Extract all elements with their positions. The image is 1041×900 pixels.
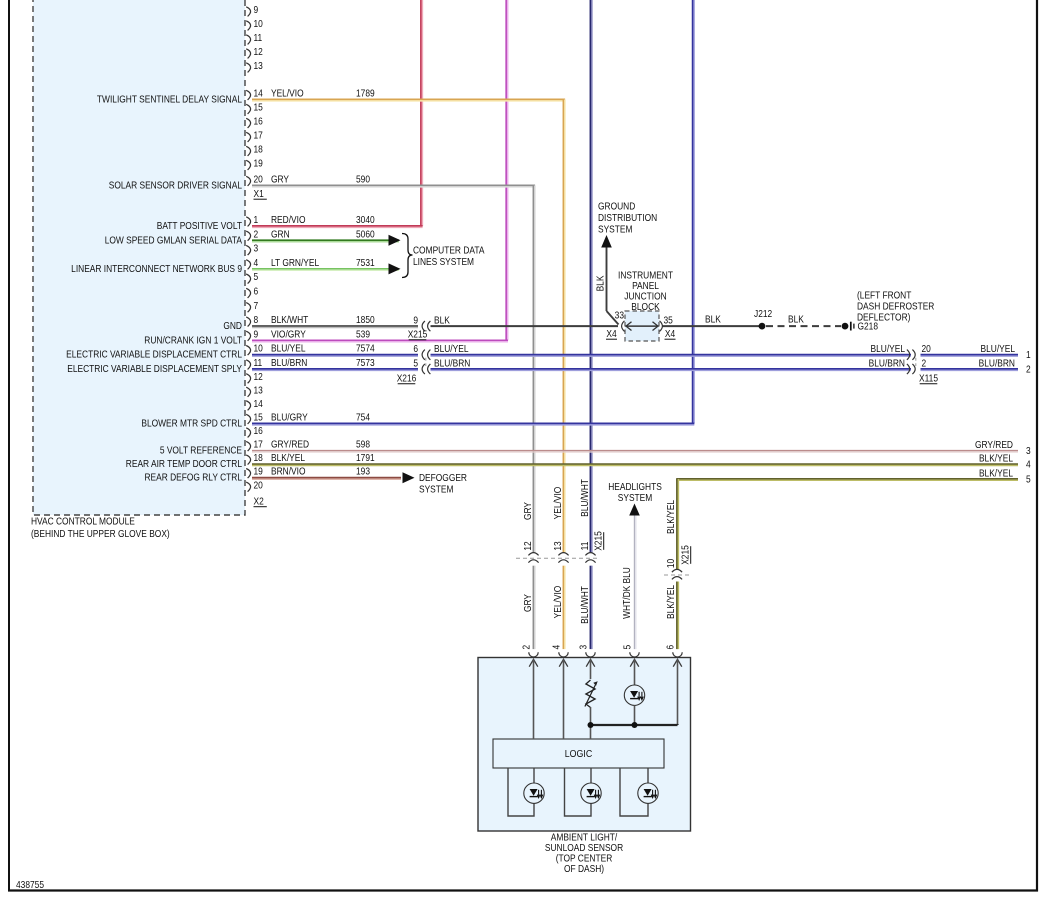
pin 9 of connector X1 (246, 7, 250, 17)
page border bottom (8, 889, 1038, 891)
wire pin9 VIO/GRY 539 (252, 339, 508, 341)
wire pin8 BLK/WHT 1850 (252, 325, 418, 327)
svg-text:DEFOGGER: DEFOGGER (419, 473, 467, 484)
svg-text:1: 1 (1026, 350, 1031, 361)
wire pin10 BLU/YEL 7574 module side (252, 354, 418, 356)
instrument panel junction block box (625, 311, 659, 341)
svg-text:SUNLOAD SENSOR: SUNLOAD SENSOR (545, 842, 624, 853)
svg-text:BLU/GRY: BLU/GRY (271, 412, 308, 423)
svg-text:VIO/GRY: VIO/GRY (271, 329, 306, 340)
svg-text:BLU/BRN: BLU/BRN (979, 358, 1015, 369)
svg-text:GRN: GRN (271, 229, 290, 240)
sensor internal bus wire (591, 724, 678, 726)
svg-text:3: 3 (1026, 445, 1031, 456)
pin 7 of connector X2 (246, 303, 250, 313)
wire pin19 BRN/VIO 193 (252, 477, 401, 479)
pin 8 of connector X2 (246, 317, 250, 327)
svg-text:JUNCTION: JUNCTION (624, 291, 666, 302)
wire BLU/YEL right segment to terminal 1 (921, 354, 1019, 356)
wire BLK from X215 to junction block (431, 325, 619, 327)
wire pin2 GRN 5060 (252, 239, 399, 241)
svg-text:2: 2 (521, 645, 532, 650)
splice J212 (759, 323, 766, 330)
junction node on pin5 wire (632, 722, 638, 728)
svg-text:10: 10 (254, 18, 263, 29)
HVAC control module box (dashed, light blue) (33, 0, 245, 515)
svg-text:BLK: BLK (595, 275, 606, 292)
svg-text:GRY: GRY (271, 174, 289, 185)
svg-text:RUN/CRANK IGN 1 VOLT: RUN/CRANK IGN 1 VOLT (144, 335, 242, 346)
inline connector pin 13 on YEL/VIO (558, 553, 568, 556)
inline connector X215 pin 9 (BLK/WHT to BLK) (422, 321, 425, 331)
wire YEL/VIO vertical upper segment (563, 100, 565, 553)
svg-text:X215: X215 (593, 531, 604, 551)
svg-text:BLU/WHT: BLU/WHT (579, 586, 590, 624)
svg-text:13: 13 (254, 60, 263, 71)
svg-text:18: 18 (254, 144, 263, 155)
svg-text:BLK: BLK (705, 314, 722, 325)
inline connector X216 pin 5 BLU/BRN (422, 364, 425, 374)
svg-text:19: 19 (254, 158, 263, 169)
pin 18 of connector X1 (246, 146, 250, 156)
pin 15 of connector X2 (246, 414, 250, 424)
sensor LED loop 3 (620, 768, 648, 816)
svg-text:YEL/VIO: YEL/VIO (552, 586, 563, 619)
wire BLK/YEL vertical upper segment (676, 479, 678, 569)
svg-text:DEFLECTOR): DEFLECTOR) (857, 312, 910, 323)
wire pin20 GRY 590 (252, 185, 535, 187)
svg-text:BLU/WHT: BLU/WHT (579, 479, 590, 517)
wire BLU/BRN middle segment (431, 368, 912, 370)
wire pin18 BLK/YEL 1791 (252, 463, 1018, 465)
wire BLU/WHT vertical from top to sensor (590, 0, 592, 553)
svg-text:HVAC CONTROL MODULE: HVAC CONTROL MODULE (31, 516, 135, 527)
sensor internal wire pin3 upper (590, 659, 592, 679)
svg-text:1850: 1850 (356, 314, 375, 325)
svg-text:(LEFT FRONT: (LEFT FRONT (857, 290, 912, 301)
pin 12 of connector X2 (246, 374, 250, 384)
inline connector pin 12 on GRY (528, 553, 538, 556)
pin 10 of connector X2 (246, 346, 250, 356)
ambient light/sunload sensor box (478, 658, 691, 832)
svg-text:X215: X215 (680, 545, 691, 565)
svg-text:BLU/YEL: BLU/YEL (434, 344, 468, 355)
junction block pin 35 (660, 321, 663, 332)
wire pin17 GRY/RED 598 (252, 450, 1018, 452)
svg-text:GROUND: GROUND (598, 201, 636, 212)
svg-text:6: 6 (665, 645, 676, 650)
wire GRY vertical lower segment (533, 566, 535, 649)
svg-text:OF DASH): OF DASH) (564, 863, 604, 874)
svg-text:BLK/YEL: BLK/YEL (271, 452, 305, 463)
svg-text:6: 6 (413, 344, 418, 355)
pin 3 of connector X2 (246, 245, 250, 255)
svg-text:3: 3 (254, 243, 259, 254)
svg-text:SYSTEM: SYSTEM (598, 224, 632, 235)
svg-text:GRY/RED: GRY/RED (271, 439, 309, 450)
pin 17 of connector X1 (246, 132, 250, 142)
wire BLU/YEL middle segment (431, 354, 912, 356)
pin 11 of connector X2 (246, 360, 250, 370)
svg-text:5: 5 (622, 645, 633, 650)
svg-text:9: 9 (254, 4, 259, 15)
junction node on pin3 wire (588, 722, 594, 728)
photodiode D2 (524, 783, 544, 803)
svg-text:12: 12 (254, 46, 263, 57)
svg-text:4: 4 (1026, 459, 1031, 470)
svg-text:5060: 5060 (356, 229, 375, 240)
svg-text:AMBIENT LIGHT/: AMBIENT LIGHT/ (551, 832, 618, 843)
svg-text:BLU/BRN: BLU/BRN (869, 358, 905, 369)
svg-text:INSTRUMENT: INSTRUMENT (618, 270, 673, 281)
inline connector X115 pin 20 BLU/YEL (912, 350, 915, 360)
pin 10 of connector X1 (246, 21, 250, 31)
svg-text:11: 11 (254, 357, 263, 368)
svg-text:GRY/RED: GRY/RED (975, 439, 1013, 450)
svg-text:9: 9 (413, 315, 418, 326)
sensor internal wire pin6 (677, 659, 679, 725)
pin 2 of connector X2 (246, 231, 250, 241)
pin 4 of connector X2 (246, 260, 250, 270)
sensor internal wire pin3 lower (590, 707, 592, 739)
svg-text:BLU/YEL: BLU/YEL (981, 344, 1015, 355)
svg-text:GND: GND (223, 320, 242, 331)
svg-text:20: 20 (254, 480, 263, 491)
svg-text:11: 11 (254, 32, 263, 43)
svg-text:12: 12 (254, 371, 263, 382)
wire BLK dashed to G218 (766, 325, 841, 327)
svg-text:J212: J212 (754, 308, 772, 319)
pin 20 of connector X2 (246, 482, 250, 492)
svg-text:BLOCK: BLOCK (631, 301, 660, 312)
page border left (8, 0, 10, 892)
svg-text:BLK: BLK (788, 314, 805, 325)
photodiode D4 (638, 783, 658, 803)
svg-text:DASH DEFROSTER: DASH DEFROSTER (857, 301, 935, 312)
svg-text:754: 754 (356, 412, 370, 423)
svg-text:X216: X216 (397, 373, 417, 384)
svg-text:X1: X1 (254, 188, 264, 199)
wire YEL/VIO vertical lower segment (563, 566, 565, 649)
wire BLK ground distribution vertical (606, 248, 608, 312)
pin 19 of connector X2 (246, 469, 250, 479)
svg-text:2: 2 (254, 229, 259, 240)
photoresistor R1 (586, 680, 595, 708)
svg-text:13: 13 (552, 541, 563, 550)
svg-text:BLU/YEL: BLU/YEL (271, 343, 305, 354)
svg-text:14: 14 (254, 398, 263, 409)
pin 16 of connector X1 (246, 118, 250, 128)
svg-text:8: 8 (254, 314, 259, 325)
svg-text:ELECTRIC VARIABLE DISPLACEMENT: ELECTRIC VARIABLE DISPLACEMENT CTRL (66, 349, 242, 360)
tie line X115 (915, 358, 917, 366)
svg-text:SYSTEM: SYSTEM (618, 492, 652, 503)
pin 6 of connector X2 (246, 288, 250, 298)
svg-text:18: 18 (254, 452, 263, 463)
svg-text:PANEL: PANEL (632, 280, 659, 291)
tie line X215 at BLK/YEL (664, 574, 691, 576)
svg-text:REAR DEFOG RLY CTRL: REAR DEFOG RLY CTRL (144, 472, 242, 483)
svg-text:BLK/YEL: BLK/YEL (665, 500, 676, 534)
wire BLK diagonal to junction pin 33 (607, 311, 619, 325)
svg-text:2: 2 (1026, 364, 1031, 375)
svg-text:X2: X2 (254, 496, 264, 507)
pin 13 of connector X2 (246, 387, 250, 397)
wire RED/VIO vertical from top (420, 0, 422, 226)
wire BLU/WHT vertical lower segment (590, 566, 592, 649)
svg-text:BLU/BRN: BLU/BRN (434, 358, 470, 369)
svg-text:7573: 7573 (356, 357, 375, 368)
inline connector X115 pin 2 BLU/BRN (912, 364, 915, 374)
pin 15 of connector X1 (246, 104, 250, 114)
svg-text:9: 9 (254, 329, 259, 340)
inline connector pin 11 on BLU/WHT (585, 553, 595, 556)
svg-text:3: 3 (578, 645, 589, 650)
svg-text:14: 14 (254, 88, 263, 99)
pin 16 of connector X2 (246, 428, 250, 438)
sensor internal wire pin4 (563, 659, 565, 739)
pin 5 of connector X2 (246, 274, 250, 284)
wire BLK/YEL vertical lower segment (676, 582, 678, 650)
svg-text:15: 15 (254, 102, 263, 113)
svg-text:SOLAR SENSOR DRIVER SIGNAL: SOLAR SENSOR DRIVER SIGNAL (109, 180, 242, 191)
wire pin11 BLU/BRN 7573 module side (252, 368, 418, 370)
svg-text:33: 33 (615, 310, 624, 321)
svg-text:BLOWER MTR SPD CTRL: BLOWER MTR SPD CTRL (141, 418, 242, 429)
svg-text:BATT POSITIVE VOLT: BATT POSITIVE VOLT (157, 220, 243, 231)
pin 18 of connector X2 (246, 455, 250, 465)
svg-text:X4: X4 (665, 328, 675, 339)
svg-text:19: 19 (254, 466, 263, 477)
svg-text:X215: X215 (408, 329, 428, 340)
svg-text:BLK: BLK (434, 315, 451, 326)
wire BLK/YEL to terminal 5 (676, 478, 1018, 480)
svg-text:1: 1 (254, 214, 259, 225)
svg-text:RED/VIO: RED/VIO (271, 214, 305, 225)
wire VIO/GRY vertical from top (505, 0, 507, 340)
svg-text:X4: X4 (606, 328, 616, 339)
inline connector X216 pin 6 BLU/YEL (422, 350, 425, 360)
svg-text:ELECTRIC VARIABLE DISPLACEMENT: ELECTRIC VARIABLE DISPLACEMENT SPLY (67, 363, 242, 374)
photodiode D1 (624, 685, 644, 705)
computer data lines brace (402, 234, 413, 278)
svg-text:BLK/WHT: BLK/WHT (271, 314, 309, 325)
wire pin1 RED/VIO 3040 (252, 225, 423, 227)
svg-text:15: 15 (254, 412, 263, 423)
svg-text:TWILIGHT SENTINEL DELAY SIGNAL: TWILIGHT SENTINEL DELAY SIGNAL (97, 94, 242, 105)
svg-text:4: 4 (254, 257, 259, 268)
svg-text:COMPUTER DATA: COMPUTER DATA (413, 245, 485, 256)
arrow to defogger system (403, 472, 415, 483)
wire pin14 YEL/VIO 1789 (252, 99, 565, 101)
junction block internal wire with arrows (626, 325, 659, 327)
svg-text:598: 598 (356, 439, 370, 450)
svg-text:YEL/VIO: YEL/VIO (552, 487, 563, 520)
pin 17 of connector X2 (246, 441, 250, 451)
svg-text:193: 193 (356, 466, 370, 477)
svg-text:GRY: GRY (522, 502, 533, 520)
junction block pin 33 (622, 321, 625, 332)
svg-text:438755: 438755 (16, 879, 44, 890)
svg-text:5: 5 (254, 272, 259, 283)
wire pin15 BLU/GRY 754 (252, 423, 694, 425)
svg-text:BLU/BRN: BLU/BRN (271, 357, 307, 368)
svg-text:BRN/VIO: BRN/VIO (271, 466, 305, 477)
pin 9 of connector X2 (246, 331, 250, 341)
pin 19 of connector X1 (246, 160, 250, 170)
svg-text:BLK/YEL: BLK/YEL (665, 585, 676, 619)
svg-text:GRY: GRY (522, 594, 533, 612)
svg-text:5 VOLT REFERENCE: 5 VOLT REFERENCE (160, 445, 242, 456)
svg-text:10: 10 (665, 559, 676, 568)
pin 13 of connector X1 (246, 63, 250, 73)
sensor internal wire pin5 upper (634, 659, 636, 685)
svg-text:LT GRN/YEL: LT GRN/YEL (271, 257, 319, 268)
svg-text:16: 16 (254, 425, 263, 436)
svg-text:LOGIC: LOGIC (565, 748, 592, 760)
svg-text:17: 17 (254, 439, 263, 450)
svg-text:2: 2 (922, 358, 927, 369)
svg-text:SYSTEM: SYSTEM (419, 484, 453, 495)
svg-text:REAR AIR TEMP DOOR CTRL: REAR AIR TEMP DOOR CTRL (126, 458, 242, 469)
pin 20 of connector X1 (246, 176, 250, 186)
sensor internal wire pin2 (533, 659, 535, 739)
svg-text:10: 10 (254, 343, 263, 354)
svg-text:1789: 1789 (356, 88, 375, 99)
svg-text:7: 7 (254, 300, 259, 311)
svg-text:BLK/YEL: BLK/YEL (979, 468, 1013, 479)
wire BLU/GRY vertical from top (692, 0, 694, 424)
svg-text:5: 5 (413, 358, 418, 369)
svg-text:(TOP CENTER: (TOP CENTER (556, 853, 613, 864)
svg-text:13: 13 (254, 385, 263, 396)
wire BLK junction block to splice J212 (662, 325, 762, 327)
sensor pin 6 entry (673, 652, 682, 657)
sensor pin 5 entry (630, 652, 639, 657)
svg-text:WHT/DK BLU: WHT/DK BLU (621, 567, 632, 619)
svg-text:17: 17 (254, 130, 263, 141)
arrow to computer data lines (LT GRN/YEL) (389, 263, 401, 274)
ground G218 (842, 323, 849, 330)
svg-text:(BEHIND THE UPPER GLOVE BOX): (BEHIND THE UPPER GLOVE BOX) (31, 528, 170, 539)
pin 11 of connector X1 (246, 35, 250, 45)
svg-text:DISTRIBUTION: DISTRIBUTION (598, 212, 657, 223)
pin 12 of connector X1 (246, 49, 250, 59)
sensor internal wire pin5 lower (634, 706, 636, 726)
photodiode D3 (581, 783, 601, 803)
svg-text:1791: 1791 (356, 452, 375, 463)
svg-text:11: 11 (579, 542, 590, 551)
svg-text:35: 35 (664, 315, 673, 326)
inline connector pin 10 on BLK/YEL (672, 569, 682, 572)
wire GRY vertical upper segment (533, 186, 535, 553)
svg-text:HEADLIGHTS: HEADLIGHTS (608, 481, 662, 492)
page border right (1036, 0, 1038, 892)
svg-text:BLU/YEL: BLU/YEL (871, 344, 905, 355)
pin 14 of connector X1 (246, 90, 250, 100)
svg-text:BLK/YEL: BLK/YEL (979, 453, 1013, 464)
pin 14 of connector X2 (246, 401, 250, 411)
svg-text:5: 5 (1026, 474, 1031, 485)
sensor pin 2 entry (529, 652, 538, 657)
wire pin4 LT GRN/YEL 7531 (252, 268, 399, 270)
svg-text:LOW SPEED GMLAN SERIAL DATA: LOW SPEED GMLAN SERIAL DATA (105, 235, 243, 246)
svg-text:X115: X115 (919, 373, 938, 384)
sensor pin 4 entry (559, 652, 568, 657)
pin 1 of connector X2 (246, 217, 250, 227)
svg-text:LINES SYSTEM: LINES SYSTEM (413, 256, 474, 267)
wire WHT/DK BLU vertical from headlights arrow (634, 516, 636, 650)
svg-text:20: 20 (254, 174, 263, 185)
svg-text:LINEAR INTERCONNECT NETWORK BU: LINEAR INTERCONNECT NETWORK BUS 9 (71, 263, 242, 274)
svg-text:7531: 7531 (356, 257, 375, 268)
svg-text:16: 16 (254, 116, 263, 127)
svg-text:12: 12 (522, 541, 533, 550)
logic box U2 (493, 739, 664, 768)
svg-text:YEL/VIO: YEL/VIO (271, 88, 304, 99)
arrow to headlights system (629, 504, 640, 516)
sensor LED loop 2 (565, 768, 592, 816)
svg-text:20: 20 (922, 344, 931, 355)
tie line X215 verticals (516, 557, 600, 559)
arrow to computer data lines (GRN) (389, 235, 401, 246)
svg-text:4: 4 (551, 645, 562, 650)
svg-text:539: 539 (356, 329, 370, 340)
arrow to ground distribution system (601, 235, 612, 248)
tie line X216 (425, 358, 427, 366)
sensor LED loop 1 (508, 768, 534, 816)
svg-text:6: 6 (254, 286, 259, 297)
svg-text:590: 590 (356, 174, 370, 185)
svg-text:7574: 7574 (356, 343, 375, 354)
sensor pin 3 entry (586, 652, 595, 657)
svg-text:3040: 3040 (356, 214, 375, 225)
wire BLU/BRN right segment to terminal 2 (921, 368, 1019, 370)
